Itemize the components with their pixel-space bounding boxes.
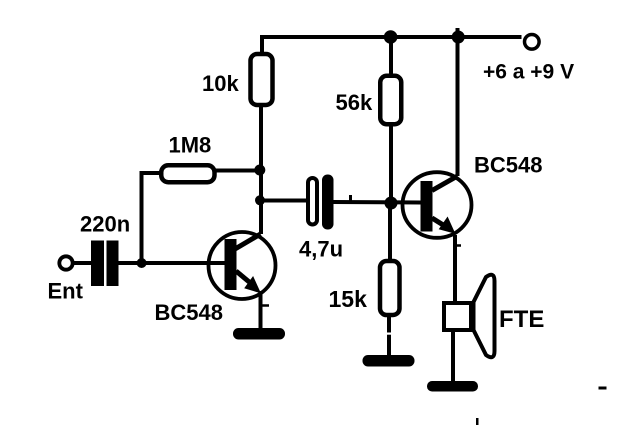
svg-text:15k: 15k	[329, 286, 368, 312]
svg-text:BC548: BC548	[155, 300, 223, 325]
svg-text:BC548: BC548	[474, 153, 542, 178]
svg-text:220n: 220n	[80, 212, 130, 237]
svg-text:+6 a +9 V: +6 a +9 V	[483, 61, 574, 84]
svg-text:56k: 56k	[336, 90, 373, 115]
svg-text:10k: 10k	[202, 71, 239, 96]
svg-text:FTE: FTE	[499, 306, 544, 333]
svg-text:1M8: 1M8	[169, 133, 212, 158]
svg-text:Ent: Ent	[48, 279, 84, 304]
svg-text:4,7u: 4,7u	[299, 237, 343, 262]
